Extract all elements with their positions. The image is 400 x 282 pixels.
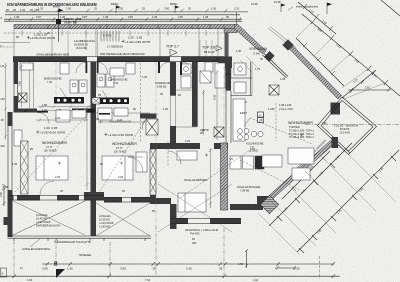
dimension line row2 [4, 19, 242, 21]
party wall unit1-unit2 [91, 62, 97, 199]
loggia divider wall [91, 198, 97, 236]
party wall unit2-unit3 lower [150, 149, 156, 195]
misc interior thin lines unit3 [176, 62, 252, 127]
corridor tick marks small [22, 30, 206, 36]
svg-text:(26.70 M2): (26.70 M2) [44, 148, 57, 152]
dim 90 note [192, 237, 197, 245]
unit3 room diagonal [180, 150, 250, 198]
party wall foot [150, 198, 171, 204]
living room texts unit1 [36, 126, 67, 152]
bottom dimension line 1 [20, 262, 335, 270]
kitchen leader lines [60, 88, 250, 126]
svg-text:LOGGIA: LOGGIA [36, 213, 48, 217]
svg-text:10.05 M2: 10.05 M2 [99, 218, 110, 222]
svg-text:1.48: 1.48 [280, 77, 286, 81]
svg-text:LOGGIA: LOGGIA [99, 214, 111, 218]
svg-text:+1.93/+4.86 OKTB: +1.93/+4.86 OKTB [125, 40, 150, 44]
unit3 terrace south wall [170, 218, 241, 224]
svg-text:1.80: 1.80 [42, 103, 48, 107]
flag marker BRSH 1 [111, 2, 121, 13]
south wall living rooms [8, 192, 151, 203]
kitchen counter unit1 [54, 97, 95, 113]
svg-text:SW: SW [1, 144, 6, 148]
unit2 vorraum marks [12, 75, 163, 179]
axis dashdot verticals [14, 226, 224, 275]
svg-text:6 STG: 6 STG [103, 34, 112, 38]
loggia2 label [99, 214, 114, 228]
door arc unit2 entry [97, 62, 108, 73]
top right short diagonal dim chain [298, 2, 336, 34]
svg-text:IM ESTRICH + 4.96/+1.93 M: IM ESTRICH + 4.96/+1.93 M [185, 228, 218, 232]
svg-text:+2.05/+5.00 OKFB: +2.05/+5.00 OKFB [40, 131, 65, 135]
bath window wall unit1 inner [30, 62, 34, 108]
svg-text:LAUBENGANG.: LAUBENGANG. [74, 39, 96, 43]
left exterior wall lower [8, 112, 13, 237]
svg-text:3.50: 3.50 [66, 6, 72, 10]
svg-text:SCHLAFNISCHE: SCHLAFNISCHE [237, 185, 260, 189]
svg-text:3.87: 3.87 [82, 15, 88, 19]
svg-text:3.18: 3.18 [250, 147, 256, 151]
svg-text:1.30: 1.30 [236, 49, 242, 53]
svg-text:UM: UM [1, 97, 5, 101]
svg-text:estrich ausgleichen: estrich ausgleichen [296, 5, 319, 9]
svg-text:7.09 M2: 7.09 M2 [240, 189, 250, 193]
svg-text:2.60: 2.60 [17, 80, 21, 86]
svg-text:SCHLAFZIMMER: SCHLAFZIMMER [184, 178, 209, 182]
corridor mullion lines [68, 30, 98, 56]
svg-text:LB: LB [1, 64, 4, 68]
bath inner dim line unit1 [17, 64, 23, 107]
svg-text:2.10: 2.10 [225, 72, 231, 76]
svg-text:2.26: 2.26 [55, 175, 61, 179]
svg-text:BRSH: BRSH [53, 5, 60, 9]
bottom dimension line 2 [0, 274, 340, 281]
schlafnische label [237, 185, 260, 193]
interior dim vertical unit3 [213, 70, 219, 140]
south door arc unit1 [40, 181, 54, 195]
wall stub unit2 [140, 114, 157, 119]
flag marker BRSH 2 [170, 2, 180, 13]
kitchen counter unit2 [92, 98, 129, 105]
svg-text:WOHNZIMMER: WOHNZIMMER [42, 141, 67, 145]
svg-text:4.26: 4.26 [213, 94, 217, 100]
unit3 bath fixtures [181, 63, 246, 93]
SE diagonal wall hatched [257, 141, 334, 208]
svg-text:B9 42.48: B9 42.48 [204, 50, 215, 54]
svg-text:3.87: 3.87 [36, 15, 42, 19]
unit3 vorraum dim texts [225, 49, 286, 81]
svg-text:STAHL-BEWEHRUNG AB09: STAHL-BEWEHRUNG AB09 [36, 52, 70, 56]
shaft with X unit3 [269, 85, 279, 95]
svg-text:1.38: 1.38 [14, 15, 20, 19]
kochnische counter row [230, 156, 264, 169]
svg-text:BALKON: BALKON [346, 123, 358, 127]
interior dim vertical unit1 [86, 108, 89, 190]
svg-text:5.68 M2: 5.68 M2 [157, 85, 167, 89]
door arc unit3 schlafzimmer [168, 151, 181, 164]
furniture unit1 [14, 110, 86, 180]
door leaves dark [37, 62, 182, 115]
interior dim chain unit2 horizontal [98, 118, 146, 124]
gok text cluster [64, 17, 82, 24]
svg-text:10.49 M2: 10.49 M2 [36, 217, 47, 221]
svg-text:25: 25 [219, 267, 223, 271]
loggia1 label [36, 213, 60, 227]
dashed axis x276 [275, 103, 277, 141]
svg-text:3.30: 3.30 [186, 267, 192, 271]
dimension row1 numbers [38, 6, 240, 10]
vorraum unit3 floor marks [200, 40, 258, 72]
unit2 vorraum door arc [142, 114, 158, 130]
svg-text:1.04: 1.04 [27, 278, 33, 282]
svg-text:1.50: 1.50 [211, 6, 217, 10]
loggia front edge [8, 236, 152, 241]
svg-text:2.01-1.7201: 2.01-1.7201 [279, 107, 293, 111]
svg-text:3.87: 3.87 [128, 15, 134, 19]
svg-text:+2.05/+5.00 OKFB: +2.05/+5.00 OKFB [30, 36, 55, 40]
furniture unit2 [98, 108, 147, 180]
unit3 loggia west wall [170, 204, 177, 229]
svg-text:PVI-630: PVI-630 [190, 231, 200, 235]
door arc unit3 entry [181, 62, 194, 75]
svg-text:TOP 3.7: TOP 3.7 [166, 44, 179, 48]
svg-text:TOPPEN: TOPPEN [289, 125, 300, 129]
corridor wall step [224, 29, 237, 33]
rotated table schlafnische [260, 195, 278, 213]
svg-text:1.00 2.05: 1.00 2.05 [44, 126, 58, 130]
bottom left small box [1, 268, 7, 277]
flag marker 31.38 [237, 0, 286, 24]
unit2 dashed axis [140, 63, 142, 142]
svg-text:2.26: 2.26 [118, 175, 124, 179]
vorraum unit2 [155, 62, 171, 89]
loggia2 outline cross [96, 203, 150, 236]
svg-text:SPIEGEL: SPIEGEL [79, 253, 92, 257]
SE small horizontal dim [275, 266, 296, 270]
abstellraum fixtures [200, 71, 211, 83]
scattered tiny dims in rooms [24, 57, 275, 213]
dimension line row1 top [5, 12, 248, 15]
corridor diagonal glazing [263, 54, 289, 79]
svg-text:(7.64): (7.64) [253, 51, 260, 55]
svg-text:31.38: 31.38 [274, 0, 281, 4]
bath fixtures unit2 [97, 63, 135, 87]
unit3 wc walls [231, 62, 252, 96]
svg-text:2.26: 2.26 [185, 139, 191, 143]
door arc unit2 south room [128, 157, 143, 172]
SE diagonal dimension line 1 [269, 143, 352, 226]
svg-text:ERST: ERST [240, 111, 247, 115]
left margin texts [1, 44, 6, 148]
svg-text:+1.93 OKFB: +1.93 OKFB [36, 220, 51, 224]
unit3 south wall [230, 204, 263, 210]
number boxes [258, 112, 264, 123]
shaft with X left [19, 93, 28, 102]
balcony diamond [318, 97, 377, 155]
svg-text:+1.93 OKFB: +1.93 OKFB [99, 221, 114, 225]
lintel hatched band [14, 25, 237, 29]
svg-text:+1.93/+4.66 OKFB: +1.93/+4.66 OKFB [108, 133, 133, 137]
left tiny number row [6, 8, 39, 12]
stair treads [101, 31, 119, 42]
NE corner short diagonal [381, 0, 400, 16]
svg-text:AUSGLEICHSESTRICH: AUSGLEICHSESTRICH [22, 247, 50, 251]
shaft X unit3 south [214, 127, 224, 137]
svg-text:1.38: 1.38 [203, 15, 209, 19]
NE horizontal dim line [348, 86, 391, 92]
room diagonal unit2 [98, 116, 148, 194]
kochnische label [246, 142, 264, 153]
svg-text:A: A [2, 271, 4, 275]
unit3 kitchen west wall lower [226, 91, 231, 143]
svg-text:VORRAUM: VORRAUM [249, 47, 267, 51]
svg-text:ANORDNAHTE T20-PLATTE: ANORDNAHTE T20-PLATTE [57, 240, 91, 244]
svg-text:50M TRENNLAGE AB-09 TRENNUNG: 50M TRENNLAGE AB-09 TRENNUNG [100, 52, 145, 56]
svg-text:3.26: 3.26 [55, 116, 61, 120]
svg-text:1.55: 1.55 [294, 267, 300, 271]
NE diagonal main wall hatched [282, 39, 341, 114]
SE vertical dashed axis [319, 256, 321, 279]
svg-text:3.87: 3.87 [178, 15, 184, 19]
axis dashdot through plan [56, 62, 224, 226]
svg-text:+5.00 - DB: +5.00 - DB [64, 21, 77, 25]
svg-text:3.50: 3.50 [164, 6, 170, 10]
svg-text:1.05: 1.05 [142, 75, 148, 79]
svg-text:3.50: 3.50 [120, 267, 126, 271]
unit3 living furniture [262, 148, 314, 180]
svg-text:BAD/KÜCHE: BAD/KÜCHE [110, 78, 128, 82]
svg-text:(8.10 M2): (8.10 M2) [76, 46, 87, 50]
left margin arrow mark [2, 184, 8, 190]
leader text anordnahte [54, 240, 91, 244]
svg-text:KOCHNISCHE: KOCHNISCHE [246, 142, 264, 146]
vorraum label unit3 [249, 47, 267, 55]
svg-text:2.60: 2.60 [0, 191, 3, 197]
svg-text:BRSH: BRSH [111, 2, 118, 6]
svg-text:3.26: 3.26 [117, 118, 123, 122]
svg-text:1.35: 1.35 [152, 15, 158, 19]
door symbol TOP 3.8 [202, 45, 222, 54]
corridor inner line above top wall [0, 33, 232, 47]
balcony label [334, 123, 358, 134]
bed unit3 [177, 151, 206, 212]
wardrobe X column unit1 [21, 141, 29, 194]
NE flag marker [327, 3, 332, 15]
unit3 bath block east wall [192, 62, 198, 127]
SE diagonal dimension line 2 [297, 150, 399, 253]
svg-text:1.75: 1.75 [255, 67, 261, 71]
svg-text:1.08 1.245: 1.08 1.245 [279, 103, 292, 107]
svg-text:+1.93 M2: +1.93 M2 [99, 224, 110, 228]
svg-text:DARÜBER BALKON: DARÜBER BALKON [36, 223, 60, 227]
schlafnische dim vertical [209, 148, 212, 208]
balcony wall stub [332, 137, 339, 148]
svg-text:TOP 3.8: TOP 3.8 [202, 45, 215, 49]
svg-text:1.50: 1.50 [67, 267, 73, 271]
top38 niche wall [225, 33, 229, 57]
unit3 living dashes [240, 118, 312, 190]
bath interior wall unit1 [14, 109, 91, 124]
svg-text:1.20 M2: 1.20 M2 [334, 123, 344, 127]
schlafnische hatched wall [221, 143, 228, 210]
dimension row1 ticks [33, 9, 228, 13]
kochnische stove [233, 99, 263, 141]
SE wall extension lines [258, 142, 396, 255]
svg-text:31.38: 31.38 [251, 2, 258, 6]
svg-text:362: 362 [192, 241, 197, 245]
svg-text:BRSH: BRSH [170, 2, 177, 6]
schlafzimmer cross [158, 184, 232, 232]
svg-text:7.04: 7.04 [145, 278, 151, 282]
svg-text:27.77: 27.77 [116, 146, 123, 150]
svg-text:7.42: 7.42 [47, 80, 53, 84]
party wall jog [150, 143, 176, 149]
svg-text:27.77: 27.77 [46, 145, 53, 149]
corridor texts middle [103, 34, 150, 49]
flag marker mid-left [53, 5, 64, 42]
estrich note top right [288, 5, 319, 10]
unit1 dim line y107 [38, 105, 90, 112]
svg-text:(5.14 M): (5.14 M) [340, 130, 350, 134]
corridor edge glazing above NE wall [268, 27, 296, 50]
svg-text:25: 25 [153, 267, 157, 271]
outside pillar left [4, 217, 13, 225]
wohnzimmer unit3 label [288, 121, 327, 139]
svg-text:BAD/KÜCHE: BAD/KÜCHE [44, 77, 62, 81]
NE wall extension lines [296, 23, 385, 99]
room diagonal unit1 [15, 114, 88, 192]
svg-text:TO.82+2.180 TOP+1: TO.82+2.180 TOP+1 [289, 128, 314, 132]
NE long diagonal dimension line [302, 14, 400, 96]
leader text ausgleichsestrich [22, 239, 50, 251]
NE diag dim chain near wall [296, 38, 344, 86]
bad/kueche label unit2 [110, 78, 128, 86]
top wall corner block right [218, 57, 232, 69]
balcony axis dashdot [305, 124, 399, 126]
shaft with X unit2 [146, 119, 158, 135]
svg-text:1.245: 1.245 [268, 107, 275, 111]
svg-text:1.35: 1.35 [20, 8, 26, 12]
corridor texts left [27, 32, 96, 50]
unit3 north rooms south wall [176, 143, 228, 149]
party wall unit2-unit3 upper [170, 62, 176, 96]
svg-text:5CM WÄRMEDÄMMUNG IN DECKENSCHA: 5CM WÄRMEDÄMMUNG IN DECKENSCHALUNG EINLE… [7, 2, 97, 7]
vertical dim 155 [238, 249, 248, 268]
loggia1 outline cross [13, 201, 85, 235]
SE diag dim chain near wall [282, 151, 330, 199]
bath interior wall unit2 [96, 113, 150, 123]
left margin vertical dim [0, 185, 6, 206]
living room texts unit2 [104, 133, 137, 154]
svg-text:1.38: 1.38 [103, 15, 109, 19]
section marker B [54, 262, 65, 279]
svg-text:B.NUTZ: B.NUTZ [340, 127, 350, 131]
svg-text:2.31: 2.31 [234, 6, 240, 10]
svg-text:1.35: 1.35 [12, 162, 18, 166]
dimension row2 numbers [14, 15, 229, 19]
svg-text:17.08/28.00: 17.08/28.00 [107, 45, 123, 49]
svg-text:GOK R= +2.05: GOK R= +2.05 [64, 17, 82, 21]
door symbol TOP 3.7 [166, 44, 179, 56]
bath fixtures unit1 [20, 63, 87, 93]
svg-text:3.00: 3.00 [42, 267, 48, 271]
svg-text:1.20: 1.20 [163, 107, 169, 111]
scattered plus markers [58, 119, 303, 165]
interior dim chain unit1 horizontal [36, 116, 88, 122]
svg-text:(26.70 M2): (26.70 M2) [114, 149, 127, 153]
dimension row2 ticks [8, 17, 241, 21]
estrich note [185, 228, 218, 235]
door arc unit1 entry [76, 62, 87, 73]
top exterior wall of apartments [13, 57, 224, 62]
svg-text:WOHNZIMMER: WOHNZIMMER [112, 142, 137, 146]
unit3 kitchen west wall [226, 62, 232, 91]
svg-text:U: U [1, 44, 3, 48]
left exterior wall upper [14, 58, 19, 113]
corridor column lines [14, 29, 218, 57]
bad/kueche label unit1 [44, 77, 62, 85]
svg-text:VORRAUM: VORRAUM [155, 81, 171, 85]
svg-text:7.42: 7.42 [113, 81, 119, 85]
dashed axis x168 [167, 141, 169, 166]
svg-text:1.04: 1.04 [253, 278, 259, 282]
corridor diagonal wall hatched [235, 25, 275, 62]
dim text near NE wall [279, 103, 293, 111]
left margin vertical line [4, 63, 7, 140]
